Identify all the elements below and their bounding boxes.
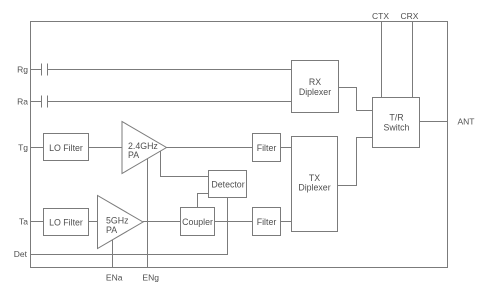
svg-text:LO Filter: LO Filter — [49, 218, 83, 228]
wire T/R Switch to ANT — [420, 121, 448, 123]
Detector box — [209, 171, 247, 198]
svg-text:CTX: CTX — [372, 11, 389, 21]
svg-text:Diplexer: Diplexer — [298, 183, 330, 193]
wire Rg input — [31, 69, 42, 71]
svg-text:RX: RX — [309, 77, 321, 87]
capacitor C1 (Rg DC block) — [41, 64, 43, 76]
svg-text:CRX: CRX — [401, 11, 419, 21]
svg-text:PA: PA — [106, 225, 117, 235]
wire Filter to TX Diplexer — [281, 221, 292, 223]
wire Detector to Det line — [31, 198, 228, 255]
wire Ra to RX Diplexer — [48, 101, 292, 103]
wire Coupler to Detector — [198, 194, 209, 208]
svg-text:TX: TX — [309, 173, 320, 183]
svg-text:Rg: Rg — [17, 65, 28, 75]
wire Tg input — [31, 147, 44, 149]
Coupler box — [181, 208, 215, 236]
wire Ra input — [31, 101, 42, 103]
wire 2.4GHz PA to Filter — [167, 147, 253, 149]
LO Filter (5GHz path) box — [44, 209, 89, 236]
svg-text:Switch: Switch — [384, 123, 410, 133]
amplifier 2.4GHz PA triangle — [122, 122, 167, 174]
svg-text:ENa: ENa — [106, 273, 123, 283]
svg-text:Filter: Filter — [257, 143, 277, 153]
wire Rg to RX Diplexer — [48, 69, 292, 71]
svg-text:PA: PA — [128, 150, 139, 160]
capacitor C2 (Ra DC block) — [41, 96, 43, 108]
svg-text:Diplexer: Diplexer — [299, 87, 331, 97]
svg-text:Filter: Filter — [257, 217, 277, 227]
svg-text:Tg: Tg — [18, 143, 28, 153]
wire PA output tap to Detector — [161, 151, 209, 177]
wire 5GHz PA to Coupler — [143, 221, 181, 223]
svg-text:Ra: Ra — [17, 97, 28, 107]
wire ENg control — [147, 159, 149, 268]
LO Filter (2.4GHz path) box — [44, 134, 89, 161]
svg-text:Ta: Ta — [19, 217, 28, 227]
wire RX Diplexer to T/R Switch — [339, 88, 373, 111]
svg-text:Coupler: Coupler — [182, 217, 213, 227]
wire Coupler to Filter — [215, 221, 253, 223]
svg-text:ANT: ANT — [458, 117, 475, 127]
svg-text:ENg: ENg — [142, 273, 159, 283]
Filter (5GHz path) box — [253, 208, 281, 236]
T/R Switch box — [373, 98, 420, 148]
Filter (2.4GHz path) box — [253, 134, 281, 162]
amplifier 5GHz PA triangle — [98, 196, 144, 249]
wire TX Diplexer to T/R Switch — [338, 138, 373, 186]
wire Ta input — [31, 221, 44, 223]
outer border frame — [31, 22, 448, 268]
svg-text:Detector: Detector — [211, 180, 244, 190]
svg-text:T/R: T/R — [389, 113, 403, 123]
wire CRX control — [412, 22, 414, 98]
svg-text:5GHz: 5GHz — [106, 216, 129, 226]
wire LO Filter to 5GHz PA — [89, 221, 98, 223]
TX Diplexer box — [292, 137, 338, 232]
RX Diplexer box — [292, 61, 339, 113]
wire ENa control — [112, 240, 114, 268]
wire Filter to TX Diplexer — [281, 147, 292, 149]
wire CTX control — [381, 22, 383, 98]
svg-text:LO Filter: LO Filter — [49, 143, 83, 153]
svg-text:Det: Det — [14, 249, 28, 259]
wire LO Filter to 2.4GHz PA — [89, 147, 123, 149]
